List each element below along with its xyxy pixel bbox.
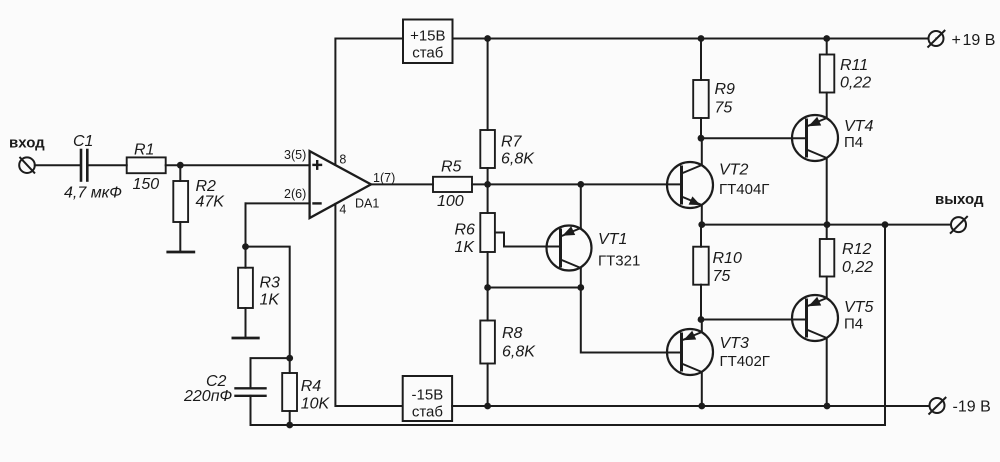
svg-text:R1: R1 xyxy=(134,141,154,158)
svg-text:R2: R2 xyxy=(196,178,217,195)
node: rail/R8 xyxy=(484,403,491,410)
terminal -19V xyxy=(929,398,945,414)
svg-text:-19 В: -19 В xyxy=(953,398,991,415)
svg-text:П4: П4 xyxy=(844,316,863,333)
svg-text:6,8K: 6,8K xyxy=(502,344,536,361)
wire: node to VT5 base xyxy=(701,319,807,321)
wire: top +19V rail xyxy=(453,38,929,40)
svg-text:R9: R9 xyxy=(715,81,736,98)
wire: feedback line (output to R4/C2) xyxy=(251,225,886,425)
op-amp - sign xyxy=(314,202,321,204)
node: R1/R2 junction xyxy=(177,162,184,169)
svg-text:0,22: 0,22 xyxy=(842,259,873,276)
svg-text:3(5): 3(5) xyxy=(284,148,306,162)
svg-text:150: 150 xyxy=(133,176,160,193)
terminal выход xyxy=(951,217,967,233)
resistor R7 xyxy=(487,39,489,131)
capacitor C1 xyxy=(81,150,87,181)
wire: VT2 collector up to node xyxy=(701,138,703,165)
wire: op-amp output to R5 xyxy=(371,183,433,185)
node: VT1 collector bottom xyxy=(577,284,584,291)
node: feedback at output rail xyxy=(882,221,889,228)
wire: R1 to op-amp + input xyxy=(166,164,310,166)
-15V stab block xyxy=(403,376,452,421)
svg-text:1K: 1K xyxy=(260,291,281,308)
wire: input terminal to C1 xyxy=(35,164,80,166)
svg-text:R6: R6 xyxy=(455,222,476,239)
svg-text:R12: R12 xyxy=(842,241,871,258)
svg-text:VT4: VT4 xyxy=(844,118,873,135)
wire: op-amp pin 8 to +15V stab xyxy=(335,39,403,166)
node: rail/R9 xyxy=(698,35,705,42)
capacitor C2 xyxy=(236,388,266,396)
resistor R8 xyxy=(487,288,489,321)
svg-text:100: 100 xyxy=(437,193,464,210)
svg-text:220пФ: 220пФ xyxy=(183,388,233,405)
wire: node to R3 xyxy=(245,247,247,268)
svg-text:ГТ402Г: ГТ402Г xyxy=(720,353,770,370)
terminal +19V xyxy=(928,31,944,47)
svg-text:R3: R3 xyxy=(260,275,281,292)
wire: R2 to ground xyxy=(179,222,181,252)
wire: VT1 emitter up to node xyxy=(580,184,582,228)
wire: VT3 collector down to rail xyxy=(701,372,703,406)
node: R4 top xyxy=(286,355,293,362)
svg-text:R8: R8 xyxy=(502,325,523,342)
svg-text:-15В: -15В xyxy=(412,387,444,404)
wire: VT1 collector net to VT3 base xyxy=(581,288,682,353)
svg-text:1(7): 1(7) xyxy=(373,171,395,185)
wire: op-amp pin 4 to -15V stab xyxy=(335,204,402,406)
wire: VT3 emitter up to node xyxy=(701,320,703,333)
svg-text:R11: R11 xyxy=(840,57,868,74)
wire: node to R4 branch corner xyxy=(246,247,290,359)
resistor R2 xyxy=(173,181,188,222)
resistor R1 xyxy=(127,157,166,173)
resistor R9 xyxy=(700,39,702,81)
resistor R12 xyxy=(826,225,828,239)
node: rail/VT5 collector xyxy=(824,403,831,410)
wire: VT1 collector down xyxy=(580,268,582,288)
svg-text:R4: R4 xyxy=(301,378,322,395)
resistor R5 xyxy=(433,177,472,192)
node: VT1 collector junction xyxy=(577,181,584,188)
transistor VT4 П4 xyxy=(792,115,838,161)
wire: C2 top to R4 top node xyxy=(251,358,290,388)
wire: R6 tap jog to VT1 base xyxy=(496,233,561,247)
svg-text:VT2: VT2 xyxy=(719,162,748,179)
svg-text:П4: П4 xyxy=(844,134,863,151)
input terminal (вход) xyxy=(19,157,35,173)
wire: inverting input down to node xyxy=(245,203,247,246)
node: rail/R7 xyxy=(484,35,491,42)
svg-text:ГТ321: ГТ321 xyxy=(598,253,640,270)
svg-text:4: 4 xyxy=(339,203,346,217)
ground (R3) xyxy=(233,337,258,340)
op-amp + sign xyxy=(314,161,322,169)
ground (R2) xyxy=(168,251,194,254)
node: rail/VT3 collector xyxy=(698,403,705,410)
node: R5/R7/R6 xyxy=(484,181,491,188)
wire: node to VT4 base xyxy=(701,137,807,139)
svg-text:4,7 мкФ: 4,7 мкФ xyxy=(64,185,122,202)
wire: node to R2 xyxy=(179,165,181,181)
svg-text:+19 В: +19 В xyxy=(952,32,996,49)
svg-text:R5: R5 xyxy=(441,158,462,175)
svg-text:C1: C1 xyxy=(73,133,93,150)
wire: R6/R8 node to VT1 collector node xyxy=(488,287,581,289)
op-amp DA1 triangle xyxy=(310,151,371,218)
transistor VT5 П4 xyxy=(792,295,838,341)
resistor R4 xyxy=(289,358,291,373)
wire: VT5 collector down to -19V rail xyxy=(826,338,828,406)
svg-text:стаб: стаб xyxy=(412,404,443,421)
svg-text:8: 8 xyxy=(339,153,346,167)
svg-text:DA1: DA1 xyxy=(355,196,379,210)
svg-text:2(6): 2(6) xyxy=(284,187,306,201)
transistor VT1 ГТ321 xyxy=(547,226,592,271)
transistor VT2 ГТ404Г xyxy=(667,162,713,208)
wire: R3 to ground xyxy=(245,308,247,338)
svg-text:47K: 47K xyxy=(196,194,226,211)
node: R6/R8/VT1 emitter net xyxy=(484,284,491,291)
+15V stab block xyxy=(403,20,453,64)
wire: C2 bottom to feedback line xyxy=(250,396,252,425)
resistor R6 xyxy=(487,184,489,213)
wire: C1 to R1 xyxy=(89,164,127,166)
node: inverting net xyxy=(242,243,249,250)
node: R9/VT2 collector/VT4 base xyxy=(698,135,705,142)
svg-text:75: 75 xyxy=(713,268,731,285)
node: R10/VT3 emitter/VT5 base xyxy=(698,316,705,323)
svg-text:R7: R7 xyxy=(501,134,523,151)
svg-text:+15В: +15В xyxy=(410,27,445,44)
wire: inverting input xyxy=(246,202,310,204)
svg-text:VT5: VT5 xyxy=(844,299,873,316)
resistor R3 xyxy=(238,268,253,308)
svg-text:стаб: стаб xyxy=(412,45,443,62)
svg-text:10K: 10K xyxy=(301,395,331,412)
wire: VT4 collector down to output rail xyxy=(826,158,828,225)
wire: output rail xyxy=(702,224,951,226)
svg-text:0,22: 0,22 xyxy=(840,75,871,92)
svg-text:1K: 1K xyxy=(455,239,476,256)
wire: R5 to VT2 base xyxy=(472,183,682,185)
resistor R11 xyxy=(826,39,828,55)
wire: VT2 emitter down to output rail xyxy=(701,205,703,225)
svg-text:вход: вход xyxy=(9,135,45,152)
node: VT2 emitter/rail xyxy=(698,221,705,228)
svg-text:R10: R10 xyxy=(713,250,742,267)
node: VT4 collector/rail xyxy=(824,221,831,228)
wire: bottom -19V rail xyxy=(452,405,929,407)
svg-text:ГТ404Г: ГТ404Г xyxy=(719,181,769,198)
svg-text:VT1: VT1 xyxy=(598,231,627,248)
node: R4 bottom xyxy=(286,422,293,429)
svg-text:выход: выход xyxy=(935,191,984,208)
transistor VT3 ГТ402Г xyxy=(667,329,713,375)
svg-text:75: 75 xyxy=(715,100,733,117)
node: rail/R11 xyxy=(823,35,830,42)
svg-text:VT3: VT3 xyxy=(720,335,749,352)
resistor R10 xyxy=(700,225,702,247)
svg-text:6,8K: 6,8K xyxy=(501,150,535,167)
